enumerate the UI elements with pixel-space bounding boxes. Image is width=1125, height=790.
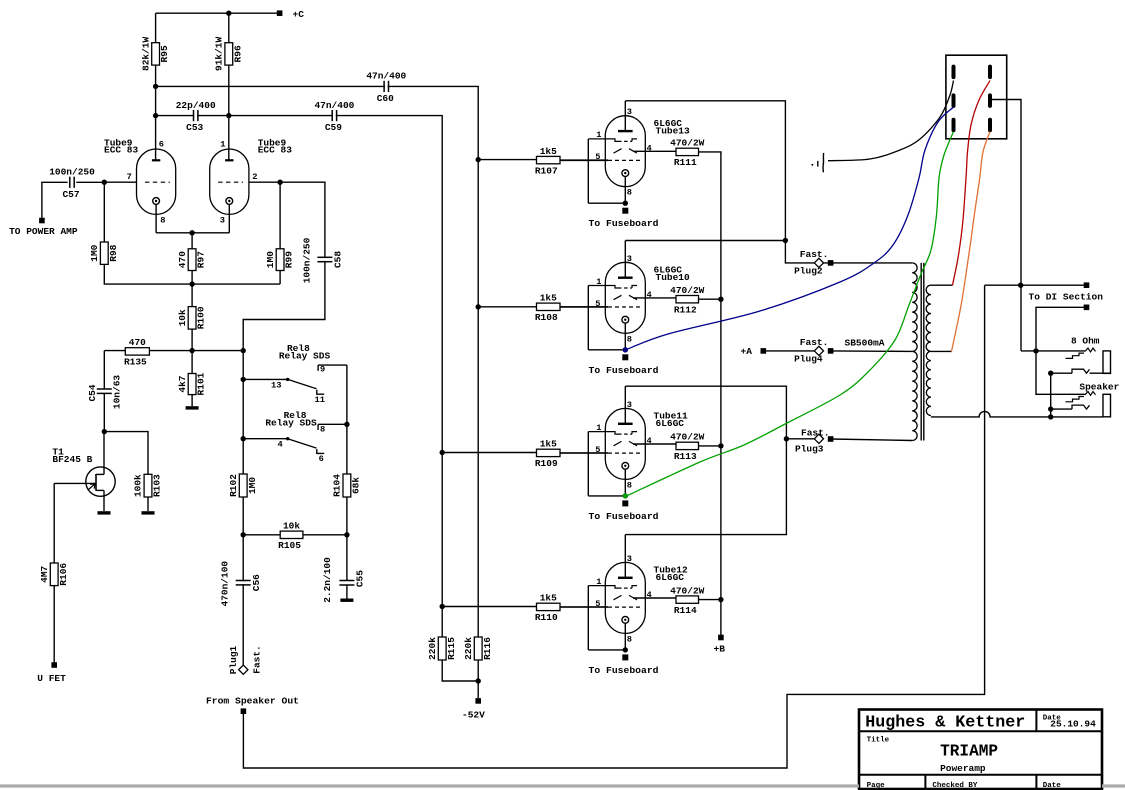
svg-text:470/2W: 470/2W — [670, 285, 705, 296]
svg-text:470n/100: 470n/100 — [220, 561, 231, 607]
svg-text:13: 13 — [271, 380, 281, 390]
svg-text:5: 5 — [595, 299, 600, 309]
svg-text:Fast.: Fast. — [251, 645, 262, 674]
svg-text:4M7: 4M7 — [39, 565, 50, 582]
svg-text:R105: R105 — [278, 540, 301, 551]
svg-text:SB500mA: SB500mA — [845, 338, 885, 349]
svg-text:25.10.94: 25.10.94 — [1050, 719, 1096, 730]
svg-text:8 Ohm: 8 Ohm — [1071, 336, 1100, 347]
svg-text:6L6GC: 6L6GC — [656, 418, 685, 429]
svg-text:10n/63: 10n/63 — [112, 375, 123, 410]
svg-text:C54: C54 — [87, 384, 98, 401]
svg-text:4: 4 — [647, 436, 652, 446]
svg-text:R101: R101 — [196, 372, 207, 395]
svg-text:R102: R102 — [228, 474, 239, 497]
svg-text:R116: R116 — [482, 637, 493, 660]
svg-text:TRIAMP: TRIAMP — [940, 742, 998, 761]
svg-text:R99: R99 — [284, 251, 295, 268]
svg-text:8: 8 — [627, 188, 632, 198]
svg-text:C59: C59 — [325, 122, 342, 133]
svg-text:From Speaker Out: From Speaker Out — [206, 696, 299, 707]
svg-text:1: 1 — [596, 423, 601, 433]
svg-text:+B: +B — [714, 644, 726, 655]
svg-text:8: 8 — [160, 216, 165, 226]
svg-text:220k: 220k — [463, 637, 474, 660]
svg-text:R103: R103 — [152, 474, 163, 497]
svg-text:Checked BY: Checked BY — [932, 782, 978, 790]
svg-text:8: 8 — [320, 425, 325, 435]
svg-text:3: 3 — [627, 107, 632, 117]
svg-text:C56: C56 — [251, 574, 262, 591]
svg-text:5: 5 — [595, 599, 600, 609]
svg-text:To DI Section: To DI Section — [1029, 291, 1104, 302]
svg-text:R95: R95 — [159, 45, 170, 62]
svg-text:2.2n/100: 2.2n/100 — [322, 557, 333, 603]
svg-text:100n/250: 100n/250 — [49, 167, 95, 178]
svg-text:470: 470 — [129, 337, 146, 348]
svg-text:1M0: 1M0 — [247, 477, 258, 494]
svg-text:R96: R96 — [232, 45, 243, 62]
svg-text:R109: R109 — [535, 458, 558, 469]
svg-text:5: 5 — [595, 152, 600, 162]
svg-text:8: 8 — [627, 334, 632, 344]
svg-text:10k: 10k — [283, 521, 300, 532]
svg-text:Fast.: Fast. — [800, 337, 829, 348]
svg-text:Plug4: Plug4 — [794, 354, 823, 365]
svg-text:ECC 83: ECC 83 — [104, 145, 139, 156]
svg-text:R112: R112 — [674, 305, 697, 316]
svg-text:11: 11 — [315, 395, 325, 405]
svg-text:To Fuseboard: To Fuseboard — [589, 365, 659, 376]
svg-text:BF245 B: BF245 B — [52, 454, 92, 465]
svg-text:To Fuseboard: To Fuseboard — [589, 511, 659, 522]
svg-text:9: 9 — [320, 364, 325, 374]
svg-text:6: 6 — [319, 454, 324, 464]
svg-text:Fast.: Fast. — [801, 428, 830, 439]
svg-text:C58: C58 — [333, 251, 344, 268]
svg-text:4: 4 — [647, 143, 652, 153]
svg-text:47n/400: 47n/400 — [314, 100, 354, 111]
svg-text:1: 1 — [220, 139, 225, 149]
svg-text:C55: C55 — [355, 570, 366, 587]
svg-text:4: 4 — [278, 440, 283, 450]
svg-text:1k5: 1k5 — [540, 146, 557, 157]
svg-text:3: 3 — [627, 400, 632, 410]
svg-text:6: 6 — [159, 139, 164, 149]
svg-text:R107: R107 — [535, 165, 558, 176]
svg-text:Plug1: Plug1 — [228, 645, 239, 674]
svg-text:4: 4 — [647, 590, 652, 600]
svg-text:100n/250: 100n/250 — [301, 237, 312, 283]
svg-text:8: 8 — [627, 634, 632, 644]
svg-text:1: 1 — [596, 277, 601, 287]
svg-text:U FET: U FET — [37, 673, 66, 684]
svg-text:82k/1W: 82k/1W — [140, 37, 151, 72]
svg-text:TO POWER AMP: TO POWER AMP — [9, 226, 78, 237]
svg-text:4: 4 — [647, 290, 652, 300]
svg-text:1M0: 1M0 — [89, 244, 100, 261]
svg-text:Page: Page — [867, 782, 886, 790]
svg-text:3: 3 — [220, 216, 225, 226]
svg-text:+C: +C — [293, 9, 305, 20]
svg-text:6L6GC: 6L6GC — [656, 572, 685, 583]
svg-text:1: 1 — [596, 130, 601, 140]
svg-text:R108: R108 — [535, 312, 558, 323]
svg-text:Fast.: Fast. — [800, 249, 829, 260]
svg-text:4k7: 4k7 — [177, 375, 188, 392]
svg-text:R115: R115 — [446, 637, 457, 660]
svg-text:7: 7 — [127, 172, 132, 182]
svg-text:Title: Title — [867, 736, 890, 744]
svg-text:470/2W: 470/2W — [670, 585, 705, 596]
svg-text:R135: R135 — [124, 357, 147, 368]
svg-text:To Fuseboard: To Fuseboard — [589, 665, 659, 676]
svg-text:R114: R114 — [674, 605, 697, 616]
svg-text:Relay SDS: Relay SDS — [279, 350, 331, 361]
svg-text:R98: R98 — [108, 244, 119, 261]
svg-text:Speaker: Speaker — [1079, 382, 1119, 393]
svg-text:68k: 68k — [351, 477, 362, 494]
svg-text:2: 2 — [252, 172, 257, 182]
svg-text:R113: R113 — [674, 451, 697, 462]
svg-text:1k5: 1k5 — [540, 293, 557, 304]
svg-text:5: 5 — [595, 445, 600, 455]
svg-text:R110: R110 — [535, 612, 558, 623]
svg-text:10k: 10k — [177, 309, 188, 326]
svg-text:Hughes & Kettner: Hughes & Kettner — [865, 712, 1025, 731]
svg-text:ECC 83: ECC 83 — [258, 145, 293, 156]
svg-text:Relay SDS: Relay SDS — [265, 417, 317, 428]
svg-text:R97: R97 — [196, 251, 207, 268]
svg-text:22p/400: 22p/400 — [176, 100, 216, 111]
svg-text:91k/1W: 91k/1W — [214, 37, 225, 72]
svg-text:Tube10: Tube10 — [656, 272, 691, 283]
svg-text:Poweramp: Poweramp — [940, 763, 986, 774]
svg-text:1M0: 1M0 — [265, 251, 276, 268]
svg-text:470: 470 — [177, 251, 188, 268]
svg-text:1: 1 — [596, 577, 601, 587]
svg-text:47n/400: 47n/400 — [366, 71, 406, 82]
svg-text:3: 3 — [627, 254, 632, 264]
svg-text:R100: R100 — [196, 306, 207, 329]
svg-text:100k: 100k — [133, 474, 144, 497]
svg-text:-52V: -52V — [462, 709, 485, 720]
svg-text:C57: C57 — [62, 189, 79, 200]
svg-text:To Fuseboard: To Fuseboard — [589, 218, 659, 229]
svg-text:R106: R106 — [58, 563, 69, 586]
svg-text:+A: +A — [741, 346, 753, 357]
svg-text:C53: C53 — [186, 122, 203, 133]
svg-text:3: 3 — [627, 554, 632, 564]
svg-text:Plug3: Plug3 — [795, 444, 824, 455]
svg-text:470/2W: 470/2W — [670, 138, 705, 149]
svg-text:R104: R104 — [332, 474, 343, 497]
svg-text:Plug2: Plug2 — [794, 265, 823, 276]
svg-text:1k5: 1k5 — [540, 439, 557, 450]
svg-text:C60: C60 — [377, 93, 394, 104]
svg-text:220k: 220k — [427, 637, 438, 660]
svg-text:470/2W: 470/2W — [670, 432, 705, 443]
svg-text:1k5: 1k5 — [540, 593, 557, 604]
svg-text:8: 8 — [627, 480, 632, 490]
svg-text:Date: Date — [1043, 782, 1062, 790]
svg-text:Tube13: Tube13 — [656, 126, 691, 137]
svg-text:R111: R111 — [674, 157, 697, 168]
